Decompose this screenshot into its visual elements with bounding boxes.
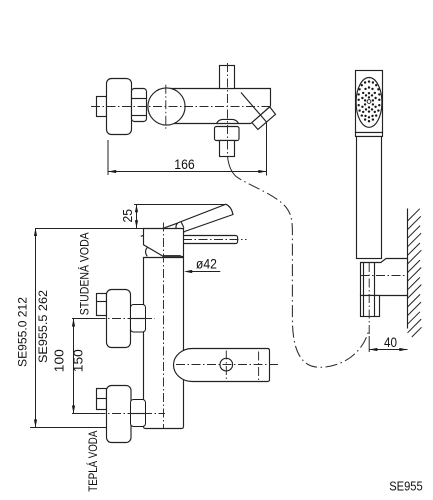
top view: horizontal centerline (91, 106, 270, 108)
top view: escutcheon (107, 79, 132, 135)
dim 212/262 line (34, 228, 37, 428)
front view: cold hex nut (131, 305, 146, 333)
dim 25 (135, 205, 138, 229)
front view: outlet tab (174, 349, 270, 382)
svg-text:40: 40 (384, 335, 397, 350)
svg-text:100: 100 (52, 349, 67, 372)
front view: joint band (164, 255, 181, 257)
dim 212/262 bottom extension (30, 427, 107, 429)
front view: head block (144, 229, 184, 257)
top view: connector dome (217, 119, 239, 123)
bracket horizontal centerline (361, 275, 408, 277)
front view: column centerline (163, 223, 165, 429)
label diameter 42 (184, 257, 220, 274)
hand shower: handle (357, 137, 382, 259)
front view: tab vertical centerline 2 (258, 352, 260, 381)
dim 166 line (108, 170, 267, 173)
front view: lever arm (176, 204, 233, 232)
front view: hot centerline extension (72, 413, 97, 415)
front view: hot hex nut (131, 400, 146, 427)
hand shower: spray face (356, 78, 382, 128)
svg-text:STUDENÁ VODA: STUDENÁ VODA (79, 232, 92, 315)
svg-text:SE955.5 262: SE955.5 262 (36, 290, 50, 363)
svg-text:ø42: ø42 (196, 257, 217, 272)
front view: hot escutcheon (107, 386, 132, 443)
wall edge (407, 209, 409, 329)
top view: angled nozzle (252, 107, 276, 130)
top view: internal diagonal edge (241, 93, 260, 115)
dim: lever top extension line (134, 204, 226, 206)
front view: tab horizontal centerline (176, 364, 278, 366)
svg-text:SE955: SE955 (389, 478, 423, 493)
hose curve (236, 177, 368, 368)
dim 100/150 line (72, 319, 75, 414)
front view: column body (144, 258, 184, 429)
dim 166 extension right (266, 123, 268, 176)
front view: hot centerline (97, 413, 166, 415)
bracket vertical centerline (368, 263, 370, 336)
hand shower: neck band (356, 133, 383, 137)
front view: joint arc (146, 248, 148, 257)
shower stem lines (364, 263, 375, 317)
hose leader solid (228, 157, 237, 177)
svg-text:SE955.0 212: SE955.0 212 (16, 297, 30, 367)
bracket (361, 259, 408, 296)
front view: tilt line (141, 222, 182, 237)
top view: mixer body bar (165, 89, 271, 124)
front view: outlet hole (220, 358, 233, 371)
top view: bottom connector stub (220, 141, 235, 157)
top view: hex nut (132, 89, 147, 122)
top view: ball vertical centerline (165, 85, 167, 130)
front view: hot wall stub (97, 389, 107, 410)
top view: bottom connector nut (215, 127, 240, 141)
dim 40 (369, 336, 407, 352)
front view: cold escutcheon (107, 290, 131, 348)
hand shower: spray dots (358, 80, 381, 122)
front view: tab vertical centerline 1 (225, 351, 227, 380)
wall hatching (408, 209, 422, 337)
svg-text:166: 166 (174, 157, 195, 172)
dim: head top extension line (36, 228, 146, 230)
hand shower: center hole (367, 100, 371, 104)
front view: cold centerline extension (72, 318, 97, 320)
front view: lever rod (181, 236, 238, 244)
svg-text:25: 25 (120, 209, 135, 223)
front view: rod centerline (183, 239, 247, 241)
dim 166 extension left (107, 140, 109, 175)
bracket stub (361, 296, 380, 317)
hand shower: head (356, 71, 383, 133)
top view: ball joint (148, 88, 185, 125)
front view: cold wall stub (97, 294, 107, 316)
top view: wall stub (97, 97, 107, 117)
front view: cold centerline (97, 318, 156, 320)
top view: knob/connector vertical centerline (227, 63, 229, 157)
svg-text:150: 150 (70, 349, 85, 372)
front view: dome edge (181, 222, 184, 228)
svg-text:TEPLÁ VODA: TEPLÁ VODA (87, 430, 100, 491)
top view: diverter knob (220, 66, 235, 89)
